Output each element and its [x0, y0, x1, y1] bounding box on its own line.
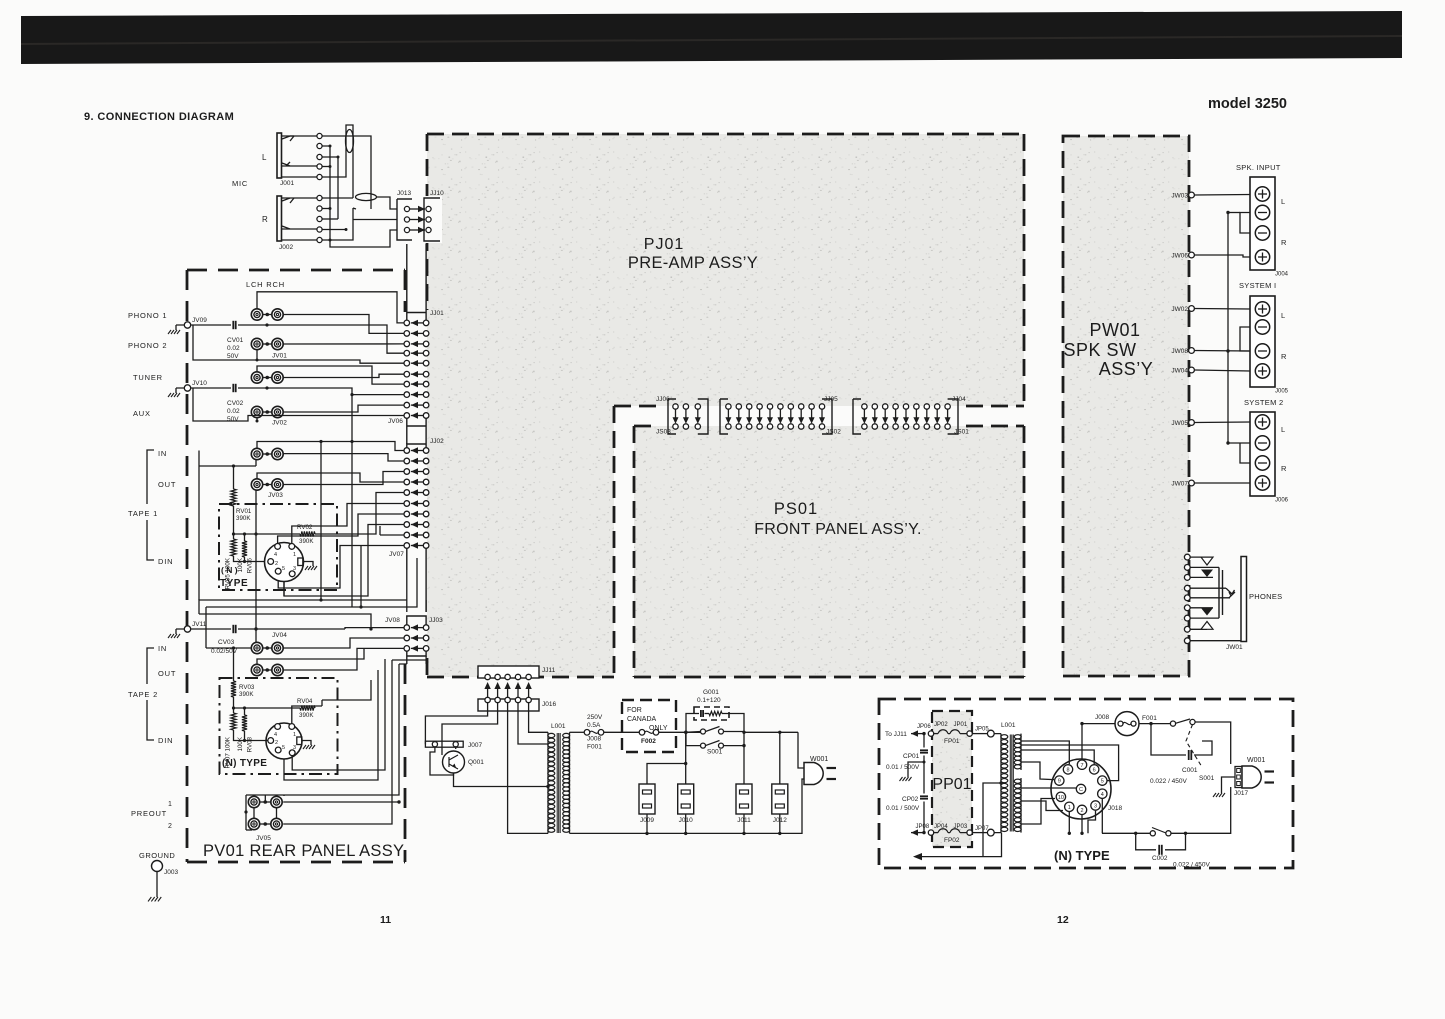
phones jack JW01: [1184, 554, 1190, 560]
svg-text:JW03: JW03: [1171, 193, 1188, 200]
svg-text:L001: L001: [1001, 722, 1016, 729]
svg-text:0.022 / 450V: 0.022 / 450V: [1150, 778, 1188, 785]
svg-text:3: 3: [293, 745, 296, 751]
svg-text:CANADA: CANADA: [627, 716, 657, 723]
svg-text:0.02: 0.02: [227, 408, 240, 415]
tape2 bracket: [147, 648, 154, 740]
wires secondary to J018: [1021, 724, 1094, 765]
svg-text:JJ11: JJ11: [542, 667, 556, 674]
wire tape1 in R to JJ02-2: [283, 454, 404, 461]
capacitor CV03: [191, 628, 345, 630]
svg-text:CP02: CP02: [902, 796, 919, 803]
svg-text:CV01: CV01: [227, 337, 244, 344]
connector JJ01: [407, 244, 426, 320]
connector J017: [1235, 767, 1242, 788]
wires tape2 net: [234, 730, 268, 741]
svg-text:11: 11: [380, 914, 391, 926]
svg-text:JW05: JW05: [1171, 420, 1188, 427]
svg-text:FRONT PANEL ASS’Y.: FRONT PANEL ASS’Y.: [754, 521, 922, 538]
wire JW04 to sys1 +: [1194, 370, 1250, 371]
aux jacks JV02: [251, 406, 262, 417]
svg-text:RV06: RV06: [247, 557, 254, 573]
svg-text:JW08: JW08: [1171, 348, 1188, 355]
PP01 power supply outer block: [879, 699, 1293, 868]
svg-text:R: R: [1281, 238, 1287, 247]
svg-text:S001: S001: [1199, 775, 1215, 782]
svg-text:SPK. INPUT: SPK. INPUT: [1236, 163, 1281, 172]
svg-text:GROUND: GROUND: [139, 851, 175, 860]
svg-text:JV03: JV03: [268, 492, 283, 499]
wire tape2 out L loop: [257, 648, 364, 664]
svg-text:50V: 50V: [227, 353, 239, 360]
svg-text:JV06: JV06: [388, 418, 403, 425]
resistor RV07 100K: [233, 697, 235, 713]
svg-text:FP01: FP01: [944, 738, 960, 745]
svg-text:5: 5: [282, 745, 285, 751]
node JV10: [184, 385, 190, 391]
wire JW05 to sys2 +: [1194, 421, 1250, 424]
svg-text:JV11: JV11: [192, 621, 207, 628]
svg-text:12: 12: [1057, 914, 1069, 926]
wires JJ11/J016 to J007/Q001/L001: [425, 703, 497, 755]
capacitor CV01: [191, 324, 267, 326]
wire JV09 to JJ01-4: [267, 325, 404, 353]
svg-text:5: 5: [282, 566, 285, 572]
svg-text:PV01 REAR PANEL ASSY: PV01 REAR PANEL ASSY: [203, 842, 404, 860]
resistor RV06 100K: [244, 534, 246, 541]
svg-text:0.1+120: 0.1+120: [697, 697, 721, 704]
outlet J012: [772, 784, 788, 814]
svg-text:J007: J007: [468, 742, 482, 749]
tape2 in jacks JV04: [251, 642, 262, 653]
svg-text:JW04: JW04: [1171, 368, 1188, 375]
wires tape1 net: [199, 465, 256, 467]
outlet wiring: [647, 732, 780, 784]
svg-text:6: 6: [1093, 768, 1096, 774]
svg-text:J008: J008: [587, 736, 601, 743]
mic jack J001 (L): [277, 133, 282, 178]
top black binding bar: [21, 11, 1402, 64]
svg-text:JW02: JW02: [1171, 306, 1188, 313]
svg-text:8: 8: [1066, 768, 1069, 774]
svg-text:4: 4: [274, 732, 277, 738]
PS01 front panel assembly block: [634, 426, 1024, 677]
svg-text:TUNER: TUNER: [133, 373, 163, 382]
wires below JJ03 to preout: [284, 664, 407, 795]
wire tape2 out R to JJ03-3: [283, 648, 404, 670]
svg-text:R: R: [262, 215, 268, 224]
transistor Q001: [443, 751, 465, 773]
svg-text:model 3250: model 3250: [1208, 96, 1287, 112]
wire JW08 to sys1 -: [1194, 350, 1250, 353]
svg-text:C: C: [1079, 787, 1083, 793]
wire aux L loop to JJ01-10: [193, 388, 404, 421]
svg-text:JP06: JP06: [917, 724, 931, 730]
wire JW06 to spk +: [1194, 255, 1250, 257]
svg-text:RV03: RV03: [239, 684, 255, 691]
svg-text:CV02: CV02: [227, 400, 244, 407]
connector JJ03: [407, 616, 426, 625]
svg-text:JJ10: JJ10: [430, 190, 444, 197]
svg-text:JW07: JW07: [1171, 481, 1188, 488]
wire tape1 out L to JJ02-4: [257, 473, 404, 482]
svg-text:PHONES: PHONES: [1249, 592, 1282, 601]
svg-text:L: L: [1281, 197, 1285, 206]
svg-text:RV07 100K: RV07 100K: [225, 736, 232, 768]
capacitor CP01: [923, 734, 925, 748]
svg-text:2: 2: [275, 740, 278, 746]
wire aux R to JJ01-9: [283, 405, 404, 412]
switch S001: [686, 731, 701, 734]
svg-text:RV05 100K: RV05 100K: [225, 557, 232, 589]
svg-text:0.5A: 0.5A: [587, 722, 601, 729]
preout jacks JV05: [248, 796, 259, 807]
wire tuner R to JJ01-6: [283, 374, 404, 377]
PV01 rear panel assembly block: [187, 269, 405, 272]
capacitor CV02: [191, 387, 267, 389]
svg-text:SPK SW: SPK SW: [1063, 340, 1136, 360]
svg-text:J008: J008: [1095, 714, 1109, 721]
svg-text:SYSTEM 2: SYSTEM 2: [1244, 398, 1284, 407]
svg-text:J002: J002: [279, 244, 293, 251]
svg-text:RV04: RV04: [297, 698, 313, 705]
svg-text:PRE-AMP ASS’Y: PRE-AMP ASS’Y: [628, 254, 758, 272]
svg-text:10: 10: [1058, 795, 1064, 801]
svg-text:CP01: CP01: [903, 753, 920, 760]
PW01 speaker switch assembly block: [1063, 136, 1189, 676]
preout loop: [246, 795, 284, 830]
svg-text:RV01: RV01: [236, 508, 252, 515]
svg-text:100K: 100K: [237, 557, 244, 572]
extra bus verticals: [351, 395, 353, 607]
svg-text:JJ01: JJ01: [430, 310, 444, 317]
svg-text:1: 1: [293, 732, 296, 738]
svg-text:J013: J013: [397, 190, 411, 197]
socket J018: [1051, 759, 1111, 819]
svg-text:DIN: DIN: [158, 736, 173, 745]
resistor RV03 390K: [233, 652, 235, 681]
lower arrow to JJ11: [920, 833, 1002, 857]
svg-text:TAPE 2: TAPE 2: [128, 690, 158, 699]
switch S001 (pp01): [1139, 723, 1171, 725]
svg-text:CV03: CV03: [218, 639, 235, 646]
minus bus wiring: [1240, 213, 1250, 234]
mic wiring: [282, 136, 317, 177]
tape2 (N) type inner box: [220, 678, 338, 774]
wire JV10 to JJ01-8: [267, 388, 404, 395]
vertical trunk from tape1 din down: [283, 582, 285, 597]
for canada only box: [622, 700, 676, 752]
phono2 jacks JV01: [251, 338, 262, 349]
node JV09: [184, 322, 190, 328]
svg-text:J018: J018: [1108, 805, 1122, 812]
bottom circuit with C002: [1171, 787, 1231, 833]
twisted pair ellipse: [346, 130, 354, 153]
svg-text:50V: 50V: [227, 416, 239, 423]
svg-text:Q001: Q001: [468, 759, 484, 766]
svg-text:2: 2: [275, 561, 278, 567]
svg-text:RV08: RV08: [247, 736, 254, 752]
fuse F002: [604, 731, 639, 733]
svg-text:JP01: JP01: [954, 722, 968, 728]
svg-text:RV02: RV02: [297, 524, 313, 531]
connector JJ11: [478, 666, 539, 678]
svg-text:100K: 100K: [237, 736, 244, 751]
outlet J011: [736, 784, 752, 814]
phones contact bars: [1219, 567, 1223, 618]
wire tape1 in L to JJ02-1: [257, 442, 404, 451]
svg-text:PP01: PP01: [932, 776, 971, 793]
connector JJ10: [422, 196, 442, 243]
wires din1 to JJ02 rows: [292, 504, 404, 544]
tape2 out jacks: [251, 664, 262, 675]
svg-text:W001: W001: [1247, 757, 1265, 764]
svg-text:AUX: AUX: [133, 409, 151, 418]
svg-text:G001: G001: [703, 689, 719, 696]
svg-text:JJ03: JJ03: [429, 617, 443, 624]
svg-text:JV05: JV05: [256, 835, 271, 842]
wire JW07 to sys2 +: [1194, 482, 1250, 484]
svg-text:1: 1: [168, 801, 172, 808]
wire JW03 to spk +: [1194, 194, 1250, 197]
svg-text:JV01: JV01: [272, 353, 287, 360]
wire tape1 out R to JJ02-3: [283, 472, 404, 485]
wire phono1 R to JJ01-2: [283, 315, 404, 334]
outlet J009: [639, 784, 655, 814]
connector J013: [397, 199, 412, 240]
wire tape2 in R to JJ03-2: [283, 638, 404, 648]
svg-text:JW01: JW01: [1226, 644, 1243, 651]
svg-text:LCH RCH: LCH RCH: [246, 280, 285, 289]
svg-text:OUT: OUT: [158, 480, 176, 489]
svg-text:JP02: JP02: [934, 722, 948, 728]
wire jj02-10 alt: [380, 526, 404, 535]
svg-text:OUT: OUT: [158, 669, 176, 678]
svg-text:0.02: 0.02: [227, 345, 240, 352]
svg-text:390K: 390K: [239, 691, 254, 698]
capacitor CP02: [923, 762, 925, 794]
svg-text:3: 3: [293, 566, 296, 572]
svg-text:DIN: DIN: [158, 557, 173, 566]
svg-text:1: 1: [293, 552, 296, 558]
resistor RV08 100K: [244, 708, 246, 715]
svg-text:SYSTEM I: SYSTEM I: [1239, 281, 1276, 290]
wire jv11 to JJ03-1: [345, 628, 404, 629]
tape1 in jacks: [251, 448, 262, 459]
wire JV09 loop to JJ01-5: [193, 325, 404, 363]
tape1 (N) type inner box: [219, 504, 337, 590]
svg-text:390K: 390K: [299, 712, 314, 719]
PJ01 pre-amp assembly block: [427, 134, 1024, 677]
svg-text:390K: 390K: [299, 538, 314, 545]
tape1 out jacks JV03: [251, 479, 262, 490]
phono1 jacks: [251, 309, 262, 320]
svg-text:PHONO 1: PHONO 1: [128, 311, 167, 320]
pp01 mid tap: [983, 783, 1001, 857]
svg-text:9: 9: [1058, 779, 1061, 785]
svg-text:F001: F001: [587, 744, 602, 751]
svg-text:R: R: [1281, 352, 1287, 361]
svg-text:4: 4: [1101, 792, 1104, 798]
svg-text:7: 7: [1080, 763, 1083, 769]
mic jack J002 (R): [277, 196, 282, 241]
svg-text:J003: J003: [164, 869, 178, 876]
phones contact triangles: [1201, 557, 1213, 565]
svg-text:To JJ11: To JJ11: [885, 731, 907, 738]
svg-text:JV02: JV02: [272, 420, 287, 427]
svg-text:JV07: JV07: [389, 551, 404, 558]
svg-text:J001: J001: [280, 180, 294, 187]
svg-text:390K: 390K: [236, 515, 251, 522]
svg-text:FOR: FOR: [627, 707, 642, 714]
svg-text:JP05: JP05: [975, 727, 989, 733]
wire phono1 L to JJ01-1: [257, 292, 404, 323]
resistor RV04 390K: [234, 707, 301, 709]
svg-text:3: 3: [1094, 804, 1097, 810]
svg-text:IN: IN: [158, 449, 167, 458]
svg-text:PJ01: PJ01: [644, 236, 684, 253]
phones sleeve bar: [1241, 557, 1247, 642]
svg-text:PREOUT: PREOUT: [131, 809, 167, 818]
tuner jacks: [251, 372, 262, 383]
svg-text:J006: J006: [1275, 498, 1289, 504]
connector JJ02: [407, 444, 426, 448]
din connector tape1: [265, 543, 304, 582]
phones switch squiggle: [1226, 588, 1235, 598]
svg-text:C001: C001: [1182, 767, 1198, 774]
svg-text:C002: C002: [1152, 855, 1168, 862]
svg-text:JJ02: JJ02: [430, 438, 444, 445]
svg-text:JV09: JV09: [192, 317, 207, 324]
ground (pp01): [1222, 777, 1236, 793]
svg-text:0.022 / 450V: 0.022 / 450V: [1173, 862, 1211, 869]
mic switch contacts: [282, 136, 294, 166]
svg-text:IN: IN: [158, 644, 167, 653]
svg-text:FP02: FP02: [944, 837, 960, 844]
svg-text:2: 2: [168, 823, 172, 830]
svg-text:2: 2: [1080, 808, 1083, 814]
svg-text:JV04: JV04: [272, 632, 287, 639]
svg-text:PS01: PS01: [774, 500, 818, 518]
din connector tape2: [266, 723, 302, 759]
connector J007: [425, 741, 463, 747]
svg-text:9. CONNECTION DIAGRAM: 9. CONNECTION DIAGRAM: [84, 111, 234, 123]
svg-text:S001: S001: [707, 749, 723, 756]
wire rv02 out to JJ02-5: [315, 493, 404, 535]
svg-text:L001: L001: [551, 723, 566, 730]
svg-text:(N) TYPE: (N) TYPE: [1054, 848, 1110, 863]
svg-text:L: L: [1281, 425, 1285, 434]
svg-text:J016: J016: [542, 701, 556, 708]
resistor RV01 390K: [233, 466, 235, 489]
svg-text:F002: F002: [641, 738, 656, 745]
svg-text:JP08: JP08: [916, 824, 930, 830]
svg-text:L: L: [262, 153, 267, 162]
PP01 inner block: [932, 711, 972, 847]
svg-text:PHONO 2: PHONO 2: [128, 341, 167, 350]
wires din2 out right: [292, 700, 322, 724]
svg-text:L: L: [1281, 311, 1285, 320]
svg-text:TAPE 1: TAPE 1: [128, 509, 158, 518]
node JV11: [184, 626, 190, 632]
svg-text:0.01 / 500V: 0.01 / 500V: [886, 764, 920, 771]
svg-text:JW06: JW06: [1171, 253, 1188, 260]
resistor RV05 100K: [233, 506, 235, 539]
tape1 bracket: [147, 450, 154, 560]
svg-text:PW01: PW01: [1089, 320, 1140, 340]
capacitor C001: [1151, 724, 1186, 755]
svg-text:MIC: MIC: [232, 179, 248, 188]
svg-text:J017: J017: [1234, 790, 1248, 797]
wire JW02 to sys1 +: [1194, 308, 1250, 311]
svg-text:1: 1: [1068, 805, 1071, 811]
svg-text:ASS’Y: ASS’Y: [1099, 359, 1154, 379]
resistor RV02 390K: [234, 533, 301, 535]
svg-text:F001: F001: [1142, 715, 1157, 722]
svg-text:JV08: JV08: [385, 617, 400, 624]
svg-text:250V: 250V: [587, 714, 603, 721]
svg-text:0.01 / 500V: 0.01 / 500V: [886, 805, 920, 812]
svg-text:JV10: JV10: [192, 380, 207, 387]
svg-text:J004: J004: [1275, 272, 1289, 278]
svg-text:5: 5: [1101, 779, 1104, 785]
svg-text:J005: J005: [1275, 389, 1289, 395]
svg-text:4: 4: [274, 552, 277, 558]
svg-text:R: R: [1281, 464, 1287, 473]
wire phono2 to JJ01-3: [283, 343, 404, 345]
long tape loops JV07 down: [199, 570, 407, 614]
outlet J010: [678, 784, 694, 814]
bottom rail: [570, 786, 803, 833]
wire tuner L loop to JJ01-7: [257, 366, 404, 384]
connector J016: [478, 699, 539, 711]
